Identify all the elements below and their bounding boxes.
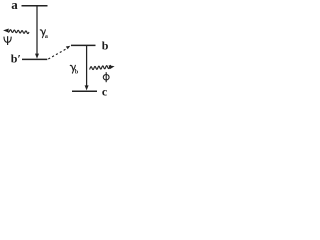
photon arrow psi wavy line xyxy=(8,30,29,34)
svg-text:b′: b′ xyxy=(11,52,21,66)
level b' xyxy=(22,58,47,60)
label gamma_a xyxy=(40,30,43,35)
arrowhead gamma_a xyxy=(35,54,39,59)
level a xyxy=(22,5,48,7)
arrowhead phi xyxy=(109,65,115,69)
svg-text:b: b xyxy=(102,39,109,53)
decay line gamma_b xyxy=(86,45,88,86)
svg-text:b: b xyxy=(75,69,79,75)
decay line gamma_a xyxy=(36,6,38,55)
level b xyxy=(71,44,96,46)
arrowhead psi xyxy=(3,29,9,33)
label phi xyxy=(105,72,107,82)
level c xyxy=(72,90,97,92)
label gamma_b xyxy=(70,65,73,70)
svg-text:a: a xyxy=(11,0,18,12)
photon arrow phi wavy line xyxy=(90,65,111,69)
arrowhead gamma_b xyxy=(85,85,89,90)
dashed arrow b' to b xyxy=(48,49,66,59)
label psi xyxy=(7,36,9,45)
arrowhead dashed xyxy=(66,46,71,50)
svg-text:a: a xyxy=(45,34,48,40)
svg-text:c: c xyxy=(102,85,108,99)
